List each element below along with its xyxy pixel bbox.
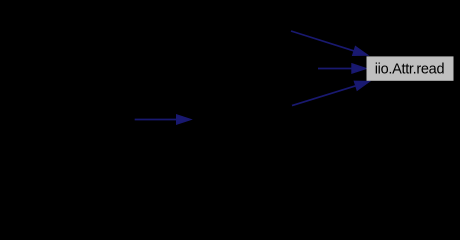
edge arrow A3: caller (bottom) to iio.Attr.read — [292, 81, 370, 106]
edge arrow A1: caller (top) to iio.Attr.read — [291, 31, 368, 56]
svg-text:iio.Attr.read: iio.Attr.read — [375, 61, 445, 77]
edge arrow A4: bottom-left caller chain — [135, 115, 192, 125]
edge arrow A2: caller (middle) to iio.Attr.read — [318, 64, 367, 74]
node iio.Attr.read (current node box) — [367, 56, 454, 80]
